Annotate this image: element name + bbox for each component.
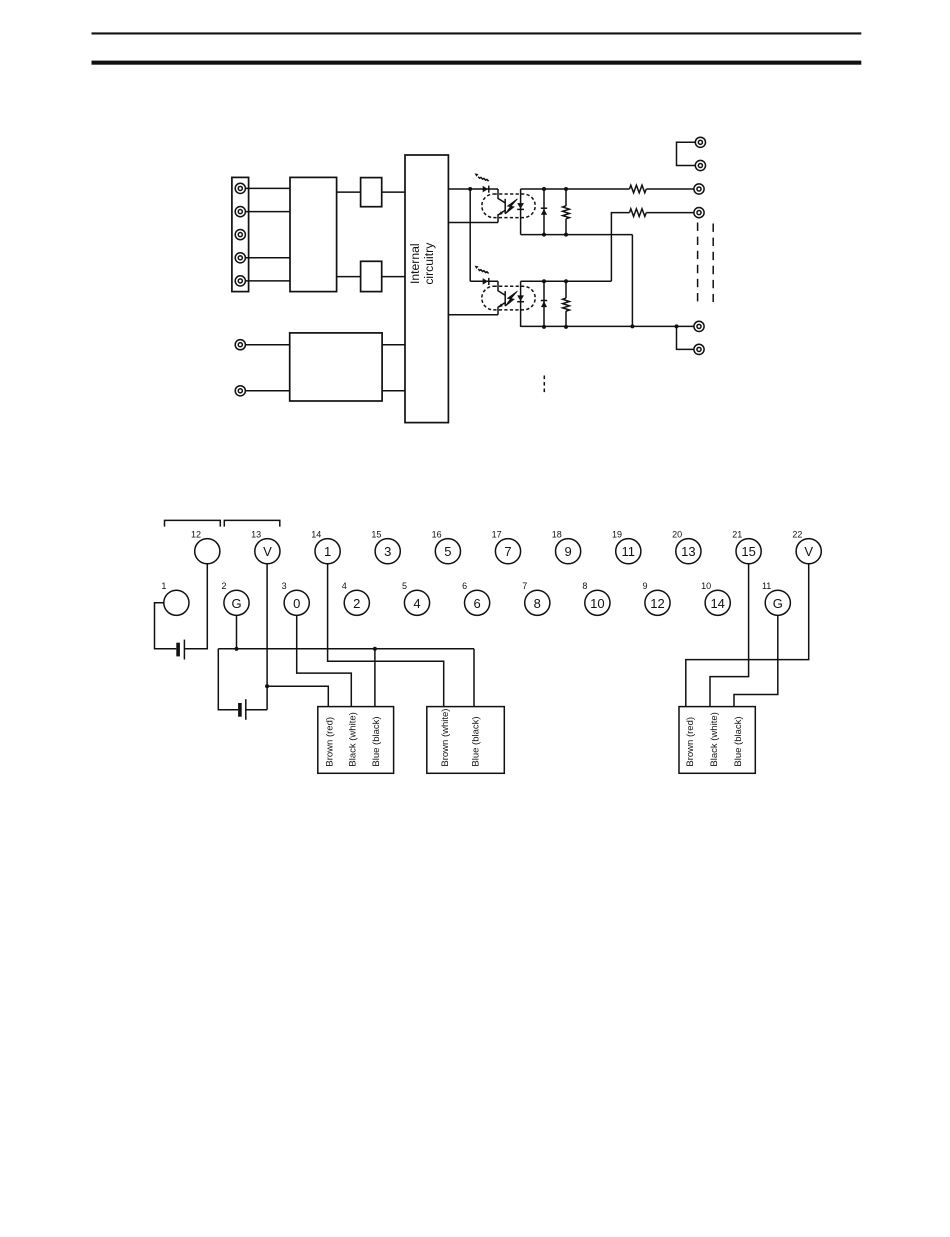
grouping bracket left xyxy=(165,520,221,526)
pin 5 circle 4 xyxy=(402,581,430,615)
svg-text:5: 5 xyxy=(444,544,451,559)
wire pin22 V to cable 3 brown xyxy=(686,564,809,707)
svg-text:0: 0 xyxy=(293,596,300,611)
header rule thin xyxy=(92,32,862,34)
power supply block xyxy=(290,333,382,401)
svg-text:V: V xyxy=(263,544,272,559)
pin 21 circle 15 xyxy=(732,529,761,563)
svg-text:7: 7 xyxy=(504,544,511,559)
svg-text:V: V xyxy=(804,544,813,559)
pin 7 circle 8 xyxy=(522,581,550,615)
svg-text:3: 3 xyxy=(282,581,287,591)
pin 3 circle 0 xyxy=(282,581,310,615)
svg-text:12: 12 xyxy=(191,529,201,539)
terminal 5 xyxy=(235,276,245,286)
wire pin3 0 to cable 1 black xyxy=(297,615,352,706)
pin 22 circle V xyxy=(792,529,821,563)
wire R1 to terminal A xyxy=(646,188,694,190)
power terminal 6 xyxy=(235,340,245,350)
wire opto2 cathode rail xyxy=(521,280,612,282)
pin 6 circle 6 xyxy=(462,581,490,615)
wire bus right end to cable 2 blue xyxy=(473,649,475,707)
output resistor R2 xyxy=(630,209,647,217)
wire power terminal 6 to power block xyxy=(245,344,289,346)
pin 17 circle 7 xyxy=(492,529,521,563)
output terminal A xyxy=(694,184,704,194)
dashed continuation line outer xyxy=(712,224,714,303)
wire pin2 G down to ground bus xyxy=(236,615,238,648)
svg-text:Black (white): Black (white) xyxy=(709,712,720,766)
svg-text:13: 13 xyxy=(681,544,695,559)
pin 1 circle xyxy=(161,581,189,615)
svg-text:Blue (black): Blue (black) xyxy=(733,716,744,766)
pin 14 circle 1 xyxy=(311,529,340,563)
svg-text:G: G xyxy=(773,596,783,611)
pin 15 circle 3 xyxy=(371,529,400,563)
battery 2 negative plate xyxy=(238,703,242,717)
wire R2 to terminal B xyxy=(646,212,694,214)
svg-text:16: 16 xyxy=(432,529,442,539)
pin 2 circle G xyxy=(221,581,249,615)
wire 0V branch down xyxy=(677,326,694,349)
svg-text:14: 14 xyxy=(710,596,724,611)
svg-text:15: 15 xyxy=(371,529,381,539)
junction dot V branch xyxy=(265,684,269,688)
dashed continuation mark below optos xyxy=(543,376,545,393)
cable box 3 xyxy=(679,707,755,774)
wire terminal4 to input block xyxy=(245,257,290,259)
svg-text:18: 18 xyxy=(552,529,562,539)
wire bus left drop to battery 2 xyxy=(218,649,238,710)
wire shield link xyxy=(677,142,696,165)
junction dot G bus xyxy=(234,647,238,651)
cable box 1 xyxy=(318,707,394,774)
wire input block to coupler block 1 xyxy=(337,191,361,193)
wire internal circuitry to node A xyxy=(448,188,470,190)
wire terminal2 to input block xyxy=(245,211,290,213)
coupler block 2 xyxy=(361,261,382,291)
pin 12 circle xyxy=(191,529,220,563)
wire bus to cable 1 blue xyxy=(374,649,376,707)
svg-text:1: 1 xyxy=(324,544,331,559)
input block xyxy=(290,177,337,291)
svg-text:8: 8 xyxy=(582,581,587,591)
wire V branch to cable 1 brown xyxy=(267,686,328,706)
pin 4 circle 2 xyxy=(342,581,370,615)
wire input block to coupler block 2 xyxy=(337,276,361,278)
cable box 2 xyxy=(427,707,505,774)
wire terminal1 to input block xyxy=(245,187,290,189)
terminal 4 xyxy=(235,253,245,263)
pin 10 circle 14 xyxy=(701,581,730,615)
wire pin14 1 to cable 2 brown xyxy=(328,564,444,707)
svg-text:10: 10 xyxy=(590,596,604,611)
svg-text:G: G xyxy=(231,596,241,611)
common terminal xyxy=(694,344,704,354)
svg-text:3: 3 xyxy=(384,544,391,559)
svg-text:Blue (black): Blue (black) xyxy=(470,716,481,766)
svg-text:7: 7 xyxy=(522,581,527,591)
terminal 2 xyxy=(235,207,245,217)
wire opto1 emitter rail xyxy=(521,234,633,236)
wire power block to internal circuitry lower xyxy=(382,390,405,392)
svg-text:21: 21 xyxy=(732,529,742,539)
0V terminal xyxy=(694,321,704,331)
power terminal 7 xyxy=(235,386,245,396)
svg-text:2: 2 xyxy=(353,596,360,611)
wire pin1 to battery 1 xyxy=(155,603,177,649)
dashed continuation line inner xyxy=(697,223,699,304)
node A junction dot xyxy=(468,187,472,191)
top shield terminal 2 xyxy=(695,160,705,170)
pin 20 circle 13 xyxy=(672,529,701,563)
wire power terminal 7 to power block xyxy=(245,390,289,392)
top shield terminal 1 xyxy=(695,137,705,147)
junction dot 0V rail left xyxy=(630,324,634,328)
pin 18 circle 9 xyxy=(552,529,581,563)
0V rail xyxy=(521,325,694,327)
wire pin21 15 to cable 3 black xyxy=(710,564,749,707)
wire pin13 V vertical xyxy=(266,564,268,710)
internal circuitry block U1 xyxy=(405,155,448,423)
svg-text:5: 5 xyxy=(402,581,407,591)
svg-text:Brown (red): Brown (red) xyxy=(325,717,336,767)
svg-text:Internalcircuitry: Internalcircuitry xyxy=(408,242,436,285)
svg-text:11: 11 xyxy=(622,544,636,559)
svg-text:8: 8 xyxy=(534,596,541,611)
ground bus wire xyxy=(218,648,474,650)
wire power block to internal circuitry upper xyxy=(382,344,405,346)
wire battery 2 to V line xyxy=(246,709,267,711)
svg-text:14: 14 xyxy=(311,529,321,539)
battery 2 positive plate xyxy=(245,699,247,720)
wire pin11 G to cable 3 blue xyxy=(734,615,778,706)
output terminal B xyxy=(694,208,704,218)
pin 8 circle 10 xyxy=(582,581,610,615)
svg-text:Black (white): Black (white) xyxy=(348,712,359,766)
svg-text:Brown (red): Brown (red) xyxy=(685,717,696,767)
svg-text:13: 13 xyxy=(251,529,261,539)
svg-text:22: 22 xyxy=(792,529,802,539)
output resistor R1 xyxy=(630,185,647,193)
svg-text:10: 10 xyxy=(701,581,711,591)
svg-text:12: 12 xyxy=(650,596,664,611)
wire opto1 cathode rail xyxy=(521,188,630,190)
svg-text:11: 11 xyxy=(762,581,771,591)
svg-text:20: 20 xyxy=(672,529,682,539)
connector terminal strip xyxy=(232,177,249,291)
svg-text:2: 2 xyxy=(221,581,226,591)
pin 13 circle V xyxy=(251,529,280,563)
wire opto2 rail riser xyxy=(611,213,629,282)
wire coupler block 1 to internal circuitry xyxy=(382,191,405,193)
battery 1 negative plate xyxy=(176,643,180,657)
svg-text:9: 9 xyxy=(642,581,647,591)
svg-text:Blue (black): Blue (black) xyxy=(371,716,382,766)
coupler block 1 xyxy=(361,178,382,207)
grouping bracket right xyxy=(224,520,279,526)
svg-text:6: 6 xyxy=(462,581,467,591)
svg-text:15: 15 xyxy=(741,544,755,559)
pin 16 circle 5 xyxy=(432,529,461,563)
wire opto1 rail down to 0V rail xyxy=(631,235,633,327)
header rule thick xyxy=(92,61,862,65)
wire node A down to opto 2 input xyxy=(469,189,471,281)
optocoupler assembly 2 (phase B) xyxy=(448,266,569,329)
battery 1 positive plate xyxy=(183,640,185,660)
svg-text:Brown (white): Brown (white) xyxy=(440,709,451,767)
wire battery 1 to pin12 xyxy=(184,564,207,649)
wire terminal5 to input block xyxy=(245,280,290,282)
svg-text:9: 9 xyxy=(564,544,571,559)
terminal 1 xyxy=(235,183,245,193)
svg-text:4: 4 xyxy=(342,581,347,591)
pin 19 circle 11 xyxy=(612,529,641,563)
svg-text:1: 1 xyxy=(161,581,166,591)
svg-text:19: 19 xyxy=(612,529,622,539)
svg-text:4: 4 xyxy=(413,596,420,611)
svg-text:17: 17 xyxy=(492,529,502,539)
optocoupler assembly 1 (phase A) xyxy=(448,173,569,236)
wire coupler block 2 to internal circuitry xyxy=(382,276,405,278)
pin 11 circle G xyxy=(762,581,790,615)
terminal 3 xyxy=(235,230,245,240)
junction dot bus to cable 1 blue xyxy=(373,647,377,651)
junction dot 0V rail right xyxy=(675,324,679,328)
pin 9 circle 12 xyxy=(642,581,670,615)
svg-text:6: 6 xyxy=(473,596,480,611)
